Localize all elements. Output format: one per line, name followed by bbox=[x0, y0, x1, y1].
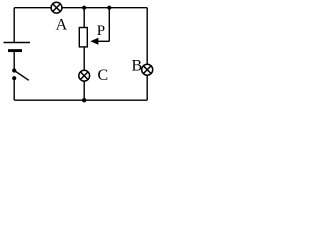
svg-text:C: C bbox=[98, 67, 109, 84]
wire bottom rail bbox=[14, 99, 147, 101]
wire top rail bbox=[14, 7, 147, 9]
lamp B bbox=[142, 64, 153, 75]
svg-text:B: B bbox=[132, 58, 143, 75]
rheostat R body bbox=[79, 28, 87, 47]
switch S blade (open) bbox=[14, 71, 29, 81]
lamp C bbox=[79, 70, 90, 81]
battery cell positive plate (long thin) bbox=[4, 42, 31, 44]
node junction dot (top rail to rheostat body) bbox=[82, 6, 86, 10]
svg-text:A: A bbox=[56, 16, 68, 33]
lamp A bbox=[51, 2, 62, 13]
wire middle branch (node to bottom rail) bbox=[83, 8, 85, 101]
switch S bottom terminal dot bbox=[12, 76, 16, 80]
wire wiper vertical drop bbox=[108, 8, 110, 42]
battery cell negative plate (short thick) bbox=[8, 49, 22, 52]
switch S top terminal dot bbox=[12, 68, 16, 72]
wire right rail bbox=[146, 8, 148, 101]
node junction dot (top rail to wiper) bbox=[107, 6, 111, 10]
node junction dot (middle branch to bottom rail) bbox=[82, 98, 86, 102]
svg-text:P: P bbox=[97, 23, 105, 39]
rheostat wiper arrowhead bbox=[90, 38, 98, 45]
wire wiper horizontal arm bbox=[97, 40, 110, 42]
wire left rail upper bbox=[13, 8, 15, 43]
wire battery to switch bbox=[13, 51, 15, 71]
wire left rail lower (switch to bottom) bbox=[13, 78, 15, 100]
